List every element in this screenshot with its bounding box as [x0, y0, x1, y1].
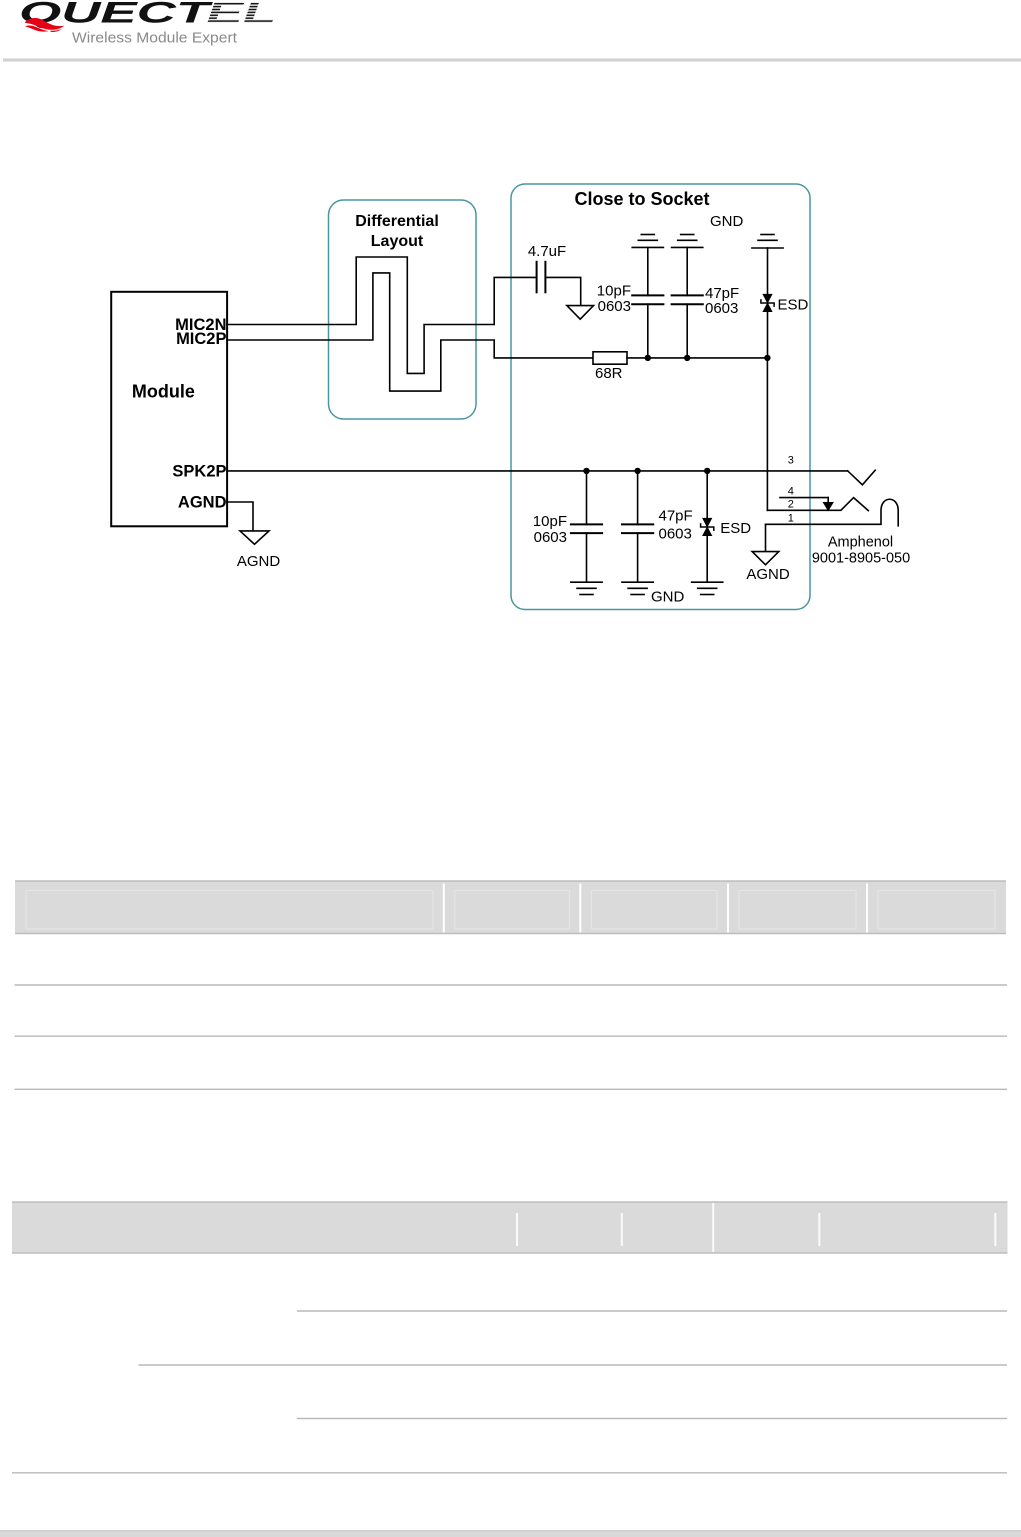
svg-text:4.7uF: 4.7uF	[528, 243, 566, 260]
svg-text:2: 2	[788, 499, 794, 511]
ground GND (C3)	[672, 235, 703, 248]
ground AGND (C1)	[567, 306, 594, 320]
svg-text:0603: 0603	[705, 300, 738, 317]
svg-text:3: 3	[788, 455, 794, 467]
svg-text:9001-8905-050: 9001-8905-050	[812, 550, 910, 566]
svg-text:10pF: 10pF	[597, 283, 631, 300]
svg-text:MIC2P: MIC2P	[176, 330, 226, 348]
close to socket box	[511, 184, 810, 610]
wire D1 to pin2	[766, 358, 768, 510]
junction dots	[583, 355, 770, 474]
wire C1 to AGND	[545, 277, 580, 305]
svg-text:Amphenol: Amphenol	[828, 535, 893, 551]
ground AGND (socket)	[752, 552, 779, 565]
svg-text:47pF: 47pF	[659, 508, 693, 525]
svg-text:GND: GND	[651, 589, 685, 606]
differential layout box	[329, 200, 477, 419]
svg-text:GND: GND	[710, 213, 744, 230]
ground GND (C5)	[622, 582, 653, 594]
footer bar	[0, 1531, 1021, 1537]
table 2 header	[12, 1202, 1008, 1253]
wire MIC2P (meander)	[227, 273, 593, 391]
table 2 row lines	[12, 1311, 1007, 1473]
svg-text:0603: 0603	[659, 526, 692, 543]
capacitor C5 47pF	[622, 471, 653, 582]
table 1 row lines	[15, 985, 1008, 1089]
wire AGND (module)	[227, 502, 253, 531]
svg-text:Layout: Layout	[371, 233, 424, 250]
logo QUECTEL	[19, 0, 277, 47]
svg-text:EL: EL	[207, 0, 277, 29]
module box	[111, 292, 227, 527]
svg-text:68R: 68R	[595, 365, 623, 382]
ground GND (D2)	[692, 582, 723, 594]
svg-text:AGND: AGND	[746, 566, 790, 583]
connector J1 pin 3	[848, 470, 876, 485]
ground GND (C2)	[632, 235, 663, 248]
capacitor C1 4.7uF	[537, 262, 546, 293]
ground AGND (module)	[240, 531, 269, 544]
svg-text:0603: 0603	[534, 529, 567, 546]
svg-text:SPK2P: SPK2P	[172, 463, 226, 481]
svg-text:Differential: Differential	[355, 213, 439, 230]
svg-text:0603: 0603	[598, 298, 631, 315]
ESD diode D2	[701, 471, 714, 582]
ground GND (D1)	[752, 235, 783, 249]
svg-text:AGND: AGND	[237, 553, 281, 570]
connector J1 pin 1	[766, 499, 899, 526]
ground GND (C4)	[571, 582, 602, 594]
wire MIC2N (meander)	[227, 257, 537, 373]
svg-text:Wireless Module Expert: Wireless Module Expert	[72, 31, 237, 47]
svg-text:ESD: ESD	[778, 297, 809, 314]
connector J1 pin 2	[767, 498, 868, 511]
wire MIC node	[627, 357, 767, 359]
svg-text:Close to Socket: Close to Socket	[574, 189, 709, 209]
svg-text:Module: Module	[132, 381, 195, 401]
capacitor C3 47pF	[672, 247, 703, 358]
capacitor C2 10pF	[632, 247, 663, 358]
wire SPK2P	[227, 470, 848, 472]
capacitor C4 10pF	[571, 471, 602, 582]
svg-text:4: 4	[788, 485, 794, 497]
resistor R1 68R	[593, 352, 627, 364]
table 1 header	[15, 881, 1006, 934]
svg-text:ESD: ESD	[720, 520, 751, 537]
ESD diode D1	[761, 248, 774, 358]
svg-text:AGND: AGND	[178, 493, 227, 511]
wire AGND (socket)	[765, 524, 767, 551]
header rule	[3, 58, 1021, 61]
svg-text:1: 1	[788, 513, 794, 525]
connector J1 pin 4	[780, 498, 833, 511]
svg-text:10pF: 10pF	[533, 513, 567, 530]
schematic labels	[132, 189, 910, 606]
